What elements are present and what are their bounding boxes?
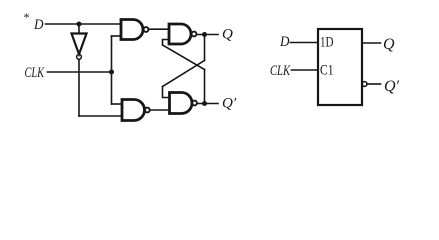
svg-text:C1: C1 xyxy=(320,63,334,79)
node CLK junction xyxy=(109,70,114,75)
symbol Q' bubble xyxy=(362,82,367,87)
nand gate G3 xyxy=(122,100,145,121)
wire D input xyxy=(46,23,122,25)
svg-text:1D: 1D xyxy=(320,34,334,50)
svg-text:CLK: CLK xyxy=(25,65,45,81)
nand gate G2 xyxy=(169,24,191,44)
wire CLK input xyxy=(48,71,112,73)
svg-text:Q: Q xyxy=(222,27,233,43)
wire G2 output to Q xyxy=(196,34,218,36)
node Q junction xyxy=(202,32,207,37)
wire G3 output to G4 xyxy=(150,109,170,111)
nand gate G1 xyxy=(121,20,143,40)
wire Q' feedback diagonal xyxy=(163,45,205,70)
inverter U1 bubble xyxy=(77,55,82,60)
svg-text:Q′: Q′ xyxy=(384,78,400,95)
wire inverter output down xyxy=(78,59,80,116)
wire CLK to G3 xyxy=(112,103,123,105)
svg-text:Q: Q xyxy=(383,36,395,53)
wire Q feedback to G4 input xyxy=(163,87,170,98)
nand gate G1 bubble xyxy=(144,27,149,32)
node Q' junction xyxy=(202,101,207,106)
nand gate G4 bubble xyxy=(192,101,197,106)
node D junction xyxy=(77,22,82,27)
wire Q' feedback vertical xyxy=(204,70,206,104)
svg-text:D: D xyxy=(33,17,44,33)
wire Q output of symbol xyxy=(362,42,381,44)
wire D to inverter xyxy=(78,24,80,34)
wire G1 output to G2 xyxy=(148,28,169,30)
svg-text:Q′: Q′ xyxy=(222,96,237,112)
wire CLK vertical xyxy=(111,36,113,104)
wire CLK to symbol xyxy=(292,69,319,71)
svg-text:*: * xyxy=(24,10,30,24)
wire Q feedback diagonal xyxy=(163,61,205,87)
svg-text:D: D xyxy=(279,34,290,50)
wire CLK to G1 xyxy=(112,35,122,37)
svg-text:CLK: CLK xyxy=(270,63,291,79)
wire inverter output to G3 xyxy=(79,115,122,117)
wire D to symbol xyxy=(291,42,319,44)
wire Q feedback vertical xyxy=(204,35,206,61)
wire Q' feedback to G2 input xyxy=(163,40,170,46)
nand gate G4 xyxy=(170,93,193,114)
wire Q' output of symbol xyxy=(367,83,381,85)
latch symbol U2 box xyxy=(318,29,362,105)
nand gate G3 bubble xyxy=(145,108,150,113)
nand gate G2 bubble xyxy=(192,32,197,37)
inverter U1 xyxy=(72,34,87,55)
wire G4 output to Q' xyxy=(197,103,218,105)
